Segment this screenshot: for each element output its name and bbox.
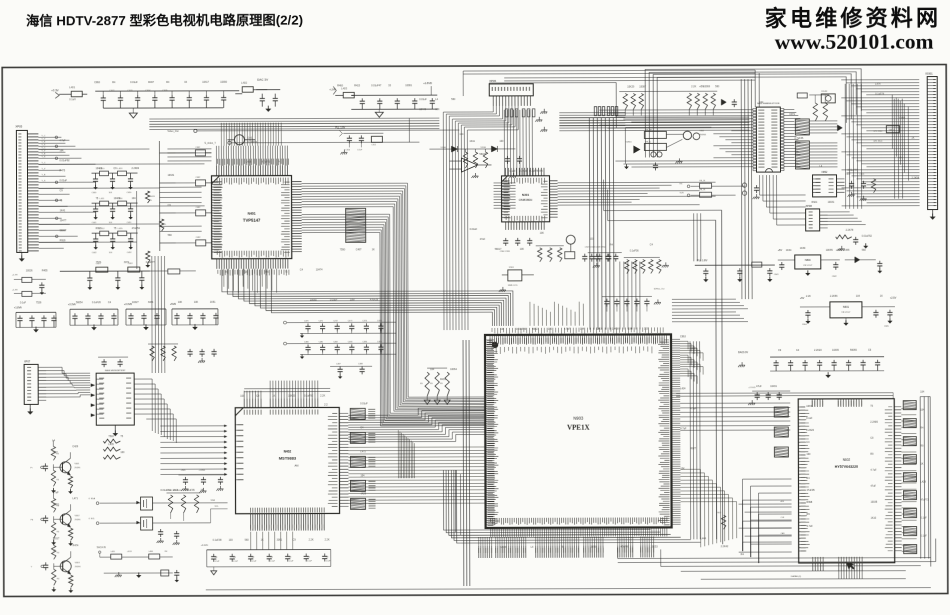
svg-text:1K43: 1K43: [172, 489, 178, 492]
SCL terminal circle: [96, 522, 99, 525]
svg-text:47uF: 47uF: [756, 385, 762, 388]
svg-text:R977: R977: [690, 447, 696, 450]
crystal X801 box with circle: [821, 94, 835, 103]
svg-text:+1.8VD: +1.8VD: [198, 470, 205, 472]
svg-text:VR VOLT: VR VOLT: [803, 265, 813, 267]
svg-text:R433: R433: [440, 378, 446, 381]
svg-text:4.7uF36: 4.7uF36: [794, 137, 803, 140]
svg-text:N402: N402: [284, 450, 292, 454]
svg-text:C472: C472: [333, 320, 338, 322]
svg-text:0.01uF: 0.01uF: [60, 179, 68, 182]
svg-text:10381: 10381: [405, 84, 412, 87]
components near XP08: R and C: [836, 235, 852, 239]
IC N406 SN74CBT3257 body: [96, 373, 134, 425]
svg-text:104: 104: [430, 368, 435, 371]
N602 bottom wires: [839, 571, 862, 579]
svg-text:47uF: 47uF: [870, 485, 876, 488]
IC N301 inner labels: [506, 178, 545, 184]
svg-text:DAC3.3V: DAC3.3V: [738, 351, 748, 354]
svg-text:1K39: 1K39: [800, 247, 806, 250]
IC N401 TVP5147 body: [212, 176, 292, 259]
svg-text:C404: C404: [145, 90, 151, 92]
svg-text:103: 103: [644, 327, 649, 330]
svg-text:L429: L429: [920, 481, 926, 484]
resistor network RN801 (hatched): [795, 119, 809, 135]
svg-text:SMF-12.5: SMF-12.5: [508, 285, 518, 287]
svg-text:56054: 56054: [76, 301, 83, 304]
svg-text:R4: R4: [56, 479, 58, 481]
wire along frame bottom: [206, 588, 931, 590]
svg-text:7528: 7528: [36, 301, 42, 304]
wires right of N903 to right margin: [672, 299, 748, 322]
svg-text:0.1uF: 0.1uF: [509, 170, 516, 173]
svg-text:4.7uF: 4.7uF: [59, 139, 66, 142]
resistor network RN401 (hatched): [346, 208, 366, 242]
pull-up resistors R443 R444 R445: [168, 495, 172, 513]
small component bottom center: [161, 570, 169, 576]
connector XP06: [489, 84, 533, 96]
svg-text:47uF49: 47uF49: [621, 546, 630, 549]
svg-text:47uF29: 47uF29: [370, 298, 379, 301]
IC N402 pins top group2: [270, 398, 318, 407]
svg-text:0.1uF: 0.1uF: [806, 417, 813, 420]
svg-text:1K: 1K: [272, 395, 275, 398]
svg-text:56067: 56067: [60, 229, 67, 232]
svg-text:SACA IN: SACA IN: [97, 546, 106, 549]
svg-text:10064: 10064: [450, 368, 457, 371]
svg-text:L471: L471: [73, 497, 79, 500]
svg-text:104: 104: [759, 101, 764, 104]
svg-text:2.2K: 2.2K: [806, 295, 811, 298]
svg-text:L406: L406: [149, 551, 153, 553]
svg-text:1K34: 1K34: [786, 249, 792, 252]
svg-text:C960: C960: [94, 81, 100, 84]
wire bus N402 to N903 lower straight: [348, 447, 484, 504]
wires region between EEPROM and connector: [894, 99, 902, 199]
capacitor pair C487 C488: [330, 365, 372, 367]
svg-text:3397: 3397: [350, 298, 356, 301]
svg-text:560: 560: [245, 539, 250, 542]
IC N406 pins left: [96, 379, 103, 414]
svg-text:A10: A10: [781, 500, 784, 503]
left vertical bus down: [152, 256, 165, 373]
crystal G401 4.19MHz: [234, 135, 244, 145]
svg-text:0.01uF52: 0.01uF52: [862, 235, 873, 238]
svg-text:104: 104: [580, 328, 585, 331]
svg-text:1K: 1K: [372, 248, 375, 251]
svg-text:VD801: VD801: [625, 142, 632, 144]
wires right of N301 long: [558, 182, 716, 205]
wire bus N401 right to N903 left pins group2: [302, 214, 485, 426]
svg-text:Video_Out: Video_Out: [167, 130, 179, 133]
svg-text:103: 103: [229, 539, 234, 542]
svg-text:Y_C: Y_C: [41, 162, 45, 164]
svg-text:10015: 10015: [690, 347, 697, 350]
svg-text:Y_C: Y_C: [41, 147, 45, 149]
svg-text:1K: 1K: [53, 549, 56, 552]
caps around N601: [807, 310, 809, 313]
svg-text:0.01uF35: 0.01uF35: [184, 489, 195, 492]
svg-text:10087: 10087: [639, 85, 646, 88]
caps row feeding N903 top right: [602, 295, 652, 297]
svg-text:103: 103: [590, 238, 595, 241]
svg-text:10K53: 10K53: [651, 545, 659, 548]
svg-text:C485: C485: [377, 341, 382, 343]
svg-text:10331: 10331: [168, 174, 175, 177]
side rails for decoupling groups: [15, 312, 17, 327]
tick labels above N401 top pins: [217, 159, 288, 166]
svg-text:C471: C471: [319, 320, 324, 322]
IC N903 pins right: [671, 339, 681, 524]
svg-text:2.2K84: 2.2K84: [131, 167, 139, 170]
svg-text:O SDA: O SDA: [89, 497, 96, 500]
svg-text:R4: R4: [57, 578, 59, 580]
svg-text:V402: V402: [75, 515, 81, 517]
IC N903 VPE1X body: [485, 334, 672, 528]
svg-text:N804: N804: [805, 259, 811, 262]
svg-text:C4: C4: [270, 557, 272, 559]
svg-text:OM8380H: OM8380H: [519, 198, 533, 202]
N406 ground: [114, 425, 116, 433]
terminal circles on XP05 nets: [55, 136, 58, 139]
svg-text:R474: R474: [73, 544, 79, 547]
bottom bus risers: [617, 548, 619, 559]
decoupling bank group 3: [126, 308, 166, 310]
svg-text:10477: 10477: [60, 219, 67, 222]
LC pair 2 left: [22, 291, 32, 296]
IC N903 inner labels left: [487, 340, 499, 525]
horizontal bus MCU to N301 region: [559, 117, 749, 131]
svg-text:TAB 10: TAB 10: [888, 129, 895, 132]
ground rake below XP06 pins: [540, 109, 547, 114]
svg-text:X8 4M: X8 4M: [821, 91, 827, 93]
svg-text:104: 104: [920, 409, 925, 412]
right outer vertical return wires: [920, 397, 929, 559]
IC N401 pins left: [212, 182, 222, 252]
corner bends MCU bus to connector: [892, 95, 908, 181]
fan-out wires from XP06 to left vertical bundle: [443, 106, 519, 330]
IC N903 inner labels bottom: [491, 517, 667, 525]
svg-text:C429: C429: [72, 445, 78, 448]
svg-text:104: 104: [459, 133, 464, 136]
svg-text:10483: 10483: [95, 167, 102, 170]
svg-text:3374: 3374: [124, 261, 130, 264]
IC N402 pins left: [235, 425, 243, 480]
transistor buffer stage V403: [51, 545, 55, 559]
bus N903 to N602: [680, 403, 790, 430]
svg-text:C482: C482: [333, 341, 338, 343]
transistor V301: [566, 235, 575, 244]
svg-text:10327: 10327: [132, 301, 139, 304]
inductor L403: [343, 92, 354, 98]
svg-text:L411: L411: [100, 198, 105, 200]
series inductors L421 L422 with caps: [60, 270, 150, 272]
svg-text:L444: L444: [701, 537, 707, 540]
svg-text:560: 560: [862, 249, 867, 252]
svg-text:2.2K: 2.2K: [691, 85, 696, 88]
wire harness from XP05: [38, 137, 95, 248]
arrows into N406: [91, 383, 96, 387]
svg-text:0.1uF: 0.1uF: [357, 149, 363, 151]
transistor buffer stage V402: [51, 498, 55, 512]
svg-text:3334: 3334: [148, 301, 154, 304]
svg-text:2.2K42: 2.2K42: [721, 545, 729, 548]
svg-text:10440: 10440: [419, 108, 426, 111]
decoupling bank group 4: [172, 308, 218, 310]
svg-text:0.1uF: 0.1uF: [20, 301, 27, 304]
svg-text:R8_1K: R8_1K: [700, 180, 707, 182]
IC N801 pin boxes right: [780, 109, 784, 111]
svg-text:0.01uF83: 0.01uF83: [516, 328, 527, 331]
svg-text:560: 560: [265, 271, 270, 274]
IC N301 pins top: [505, 168, 544, 176]
decoupling bank group +1.8VA: [16, 311, 56, 313]
svg-text:104: 104: [360, 474, 365, 477]
svg-text:C484: C484: [362, 341, 367, 343]
wires right of N903 upper group: [680, 341, 703, 384]
svg-text:2SD96: 2SD96: [74, 467, 80, 469]
resistors near top right corner: [813, 103, 817, 121]
capacitor C801: [733, 99, 735, 102]
nested loop wires around N903 bottom left: [443, 469, 700, 543]
svg-text:L434: L434: [501, 546, 507, 549]
diode VD301 VD302 with resistors: [451, 146, 457, 152]
long bottom bus wires right half: [618, 557, 931, 560]
svg-text:R4: R4: [57, 531, 59, 533]
svg-text:7590: 7590: [340, 248, 346, 251]
svg-text:R415: R415: [354, 84, 360, 87]
svg-text:0.01uF47: 0.01uF47: [371, 84, 382, 87]
IC N402 pins right: [339, 413, 348, 506]
svg-text:7576: 7576: [96, 261, 102, 264]
svg-text:3361: 3361: [277, 539, 283, 542]
resistor R431: [145, 191, 149, 203]
svg-text:0.1uF: 0.1uF: [921, 517, 928, 520]
svg-text:10K91: 10K91: [806, 405, 814, 408]
svg-text:4.19MHz: 4.19MHz: [247, 141, 257, 144]
svg-text:10K: 10K: [435, 108, 440, 111]
svg-text:N802: N802: [822, 171, 828, 174]
nested loop wires top right: [645, 69, 861, 158]
IC N401 pins top: [216, 166, 287, 176]
svg-text:2.2K: 2.2K: [309, 539, 314, 542]
svg-text:1K41: 1K41: [60, 209, 66, 212]
decoupling bank below N402 ladder: [207, 548, 331, 550]
nested corner bundle below staircase: [398, 430, 414, 478]
transistor buffer stage V401: [51, 446, 55, 460]
IC N301 pins left: [502, 181, 510, 217]
svg-text:+2.5V: +2.5V: [890, 297, 897, 300]
svg-text:0.01uF: 0.01uF: [470, 228, 478, 231]
IC N401 inner pin labels: [217, 178, 288, 185]
svg-text:GPL KMD: GPL KMD: [873, 131, 882, 133]
svg-text:2.2K: 2.2K: [325, 538, 330, 541]
svg-text:L413: L413: [117, 168, 123, 170]
ground below XS901: [932, 210, 934, 217]
svg-text:103: 103: [240, 395, 245, 398]
svg-text:AAI: AAI: [294, 465, 298, 468]
pin label ticks below N401: [218, 270, 289, 276]
svg-text:XP07: XP07: [24, 360, 31, 363]
harness into XS901: [841, 80, 919, 206]
svg-text:47uF54: 47uF54: [132, 227, 141, 230]
svg-text:2.2K: 2.2K: [320, 394, 325, 397]
wire staircase N402 to N903 left pins: [348, 408, 484, 442]
svg-text:XP08: XP08: [806, 205, 813, 208]
svg-text:L405: L405: [111, 551, 115, 553]
svg-text:R921: R921: [812, 201, 818, 204]
svg-text:+3VD: +3VD: [180, 470, 186, 472]
IC N602 pins left: [798, 407, 805, 551]
wire staircase N406 to bus: [146, 379, 176, 443]
svg-text:L474: L474: [875, 83, 881, 86]
svg-text:HY57V643220: HY57V643220: [835, 465, 858, 469]
svg-text:C4: C4: [233, 557, 235, 559]
svg-text:0.1uH: 0.1uH: [69, 98, 76, 101]
svg-text:PLL 1.8V: PLL 1.8V: [697, 258, 708, 262]
svg-text:10K25: 10K25: [288, 395, 296, 398]
IC N301 OM8380 body: [502, 176, 550, 222]
svg-text:0.01uF: 0.01uF: [330, 298, 338, 301]
svg-text:104: 104: [856, 295, 861, 298]
svg-text:10K: 10K: [194, 301, 199, 304]
svg-text:海信 HDTV-2877 型彩色电视机电路原理图(2/2): 海信 HDTV-2877 型彩色电视机电路原理图(2/2): [26, 12, 303, 29]
IC N401 pins right: [292, 182, 302, 252]
vertical bundle MCU to connector region: [845, 84, 861, 209]
svg-text:4.7uF: 4.7uF: [807, 525, 814, 528]
svg-text:0.1uF56: 0.1uF56: [630, 249, 639, 252]
IC N402 top pin connections: [244, 391, 261, 399]
svg-text:+3.3VA: +3.3VA: [68, 303, 76, 306]
level shifter V432: [141, 517, 153, 530]
connector XS901: [927, 77, 937, 210]
bus N903 lower right with bends: [680, 469, 736, 547]
caps row C901 under label row: [588, 252, 622, 254]
connector XP08: [806, 209, 820, 231]
signal line S_VIDEO_Y with terminal: [228, 141, 231, 144]
svg-text:4.7uF: 4.7uF: [680, 427, 687, 430]
svg-text:C473: C473: [348, 320, 353, 322]
tick labels above N903 top outside: [492, 327, 663, 334]
connector XP07: [24, 364, 38, 404]
bus over N602 top: [676, 393, 893, 396]
svg-text:C488: C488: [358, 363, 363, 365]
connector XS901 pins left: [927, 80, 935, 206]
svg-text:10390: 10390: [220, 81, 227, 84]
svg-text:S_video_Y: S_video_Y: [204, 142, 216, 145]
svg-text:C4: C4: [289, 557, 291, 559]
svg-text:10K: 10K: [520, 248, 525, 251]
svg-text:47uF: 47uF: [480, 238, 486, 241]
svg-text:XP06: XP06: [489, 79, 496, 83]
resistor R432: [159, 219, 163, 231]
capacitor C430 right of L422: [168, 269, 180, 274]
svg-text:10417: 10417: [202, 81, 209, 84]
svg-text:+3.3V: +3.3V: [51, 88, 59, 92]
op-amp buffer A301: [461, 158, 477, 172]
signal line VIDEO_OUT with terminal: [194, 129, 197, 132]
svg-text:C475: C475: [377, 320, 382, 322]
long top bus wires: [463, 70, 755, 74]
connector XP07 pins: [38, 367, 46, 400]
svg-text:O SCL: O SCL: [89, 518, 96, 520]
svg-text:2.2K26: 2.2K26: [806, 429, 814, 432]
svg-text:1K: 1K: [261, 539, 264, 542]
svg-text:VR VOLT: VR VOLT: [841, 312, 851, 314]
N406 caps above: [103, 359, 105, 362]
svg-text:C4: C4: [307, 557, 309, 559]
svg-text:10351: 10351: [53, 503, 60, 506]
svg-text:+5VD: +5VD: [170, 303, 176, 306]
svg-text:10470: 10470: [114, 197, 121, 200]
IC N801 inner labels: [758, 110, 764, 167]
svg-text:1K: 1K: [245, 271, 248, 274]
SDRAM control wires into N602 lower left: [739, 504, 792, 552]
short wires left of N401 top: [167, 149, 211, 161]
wires below N903 pin clusters: [479, 546, 492, 558]
svg-text:2SD96: 2SD96: [75, 566, 81, 568]
svg-text:R4: R4: [165, 551, 167, 553]
svg-text:R998: R998: [807, 501, 813, 504]
svg-text:0.01uF: 0.01uF: [360, 402, 368, 405]
svg-text:C480: C480: [304, 342, 309, 344]
extra verticals below N401: [224, 269, 277, 293]
pull-down resistors R921-R923 with open grounds: [427, 367, 447, 369]
series capacitor row C481-C486: [300, 342, 396, 344]
svg-text:C483: C483: [348, 341, 353, 343]
IC N301 pins bottom: [506, 222, 545, 230]
resistors R451 R452 vertical above N402: [150, 346, 154, 361]
svg-text:R9: R9: [440, 383, 442, 385]
IC N802 pins: [813, 179, 821, 193]
IC N802 24C16 body: [813, 175, 837, 197]
vertical wires MCU region down to regulator: [694, 213, 701, 261]
wires above N401 to top bus: [216, 146, 287, 166]
svg-text:C445: C445: [844, 249, 850, 252]
svg-text:DAC 3V: DAC 3V: [257, 78, 268, 82]
svg-text:104: 104: [628, 328, 633, 331]
svg-text:7518: 7518: [108, 435, 114, 438]
svg-text:X301: X301: [509, 267, 515, 269]
vertical rail with coupling caps C461-C464: [158, 141, 160, 251]
resistor networks right of N602 (hatched): [903, 401, 916, 410]
svg-text:104: 104: [132, 197, 137, 200]
wires left of N301: [494, 183, 516, 208]
harness XP07 to N406 and staircase: [46, 367, 90, 397]
resistor network RN802 (hatched): [795, 141, 809, 169]
svg-text:C497: C497: [356, 248, 362, 251]
caps C491 C492 with grounds: [160, 529, 162, 532]
svg-text:C484: C484: [899, 117, 905, 120]
IC N801 MCU body: [756, 103, 780, 172]
svg-text:4.7uF: 4.7uF: [53, 491, 60, 494]
caps around N804: [781, 262, 783, 265]
svg-text:C4: C4: [215, 557, 217, 559]
resistors R301-R303 vertical: [463, 152, 467, 168]
vertical bus right of N903: [690, 341, 700, 539]
svg-text:C312: C312: [371, 144, 376, 146]
svg-text:N406 SN74CBT3257: N406 SN74CBT3257: [105, 370, 126, 372]
svg-text:XP05: XP05: [15, 124, 22, 128]
svg-text:+1.8VA: +1.8VA: [14, 306, 22, 309]
svg-text:MST9883: MST9883: [279, 456, 297, 461]
svg-text:560: 560: [168, 234, 173, 237]
svg-text:4.7uF: 4.7uF: [690, 407, 697, 410]
svg-text:G401: G401: [247, 137, 254, 140]
svg-text:R8_UP: R8_UP: [645, 129, 652, 131]
svg-text:0.1uF75: 0.1uF75: [529, 170, 538, 173]
svg-text:C405: C405: [162, 90, 168, 92]
